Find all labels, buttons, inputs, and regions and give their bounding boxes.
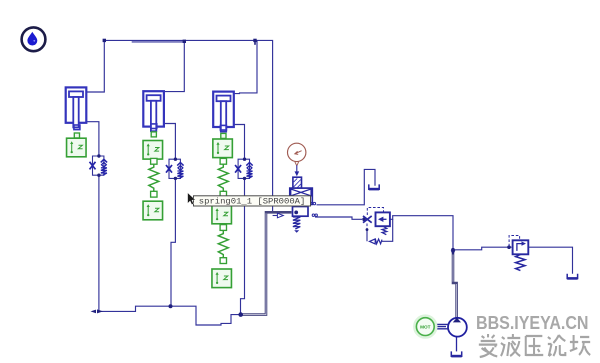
- svg-text:spring01_1 [SPR000A]: spring01_1 [SPR000A]: [199, 198, 306, 207]
- svg-text:MOT: MOT: [420, 324, 431, 329]
- svg-text:BBS.IYEYA.CN: BBS.IYEYA.CN: [476, 312, 589, 333]
